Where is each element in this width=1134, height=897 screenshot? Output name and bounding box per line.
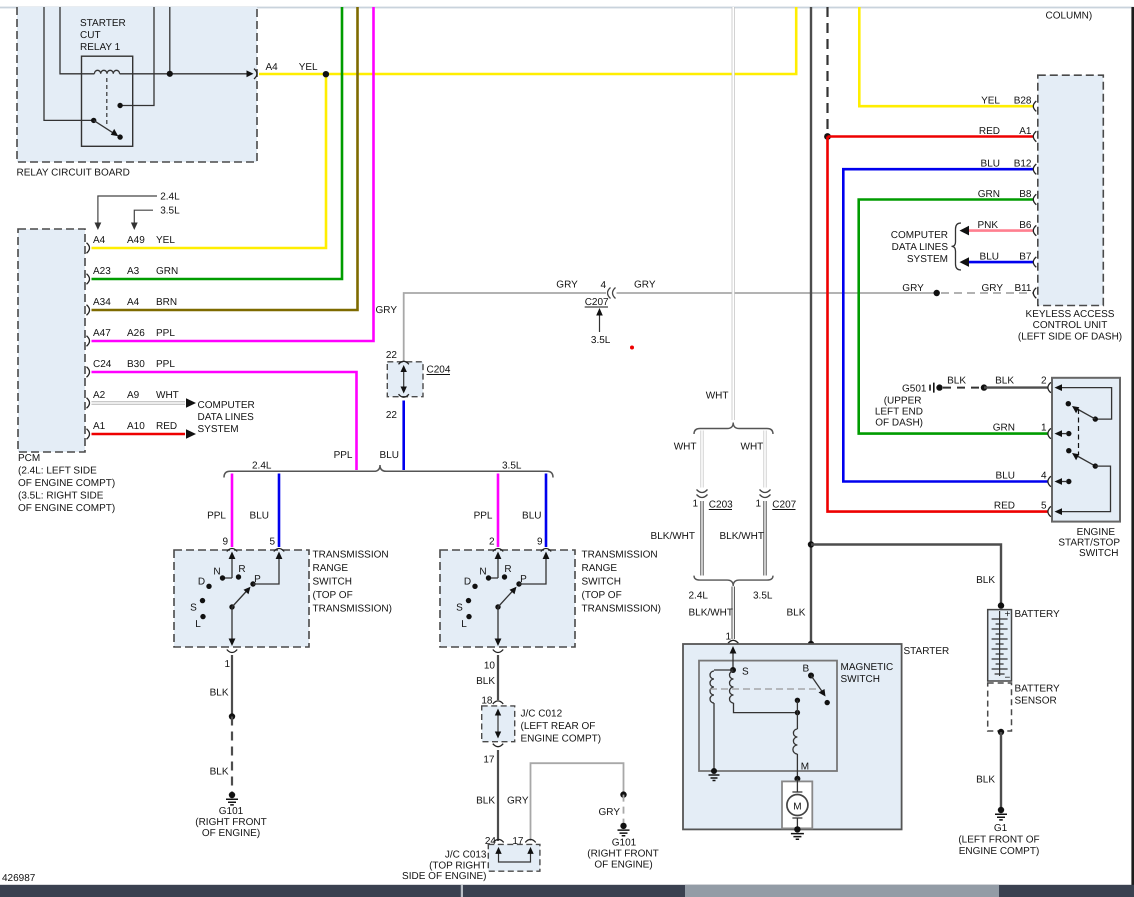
- TRS1 P to pin5 lead: [253, 554, 279, 584]
- PCM pin A1/A10 arc: [87, 429, 90, 439]
- svg-text:18: 18: [481, 696, 493, 707]
- TRS2 wiper arm to P: [498, 590, 514, 608]
- TRS1 exit arc pin1: [227, 650, 237, 653]
- connector C203 arcs: [697, 490, 708, 493]
- PCM box: [18, 229, 85, 452]
- svg-text:RELAY CIRCUIT BOARD: RELAY CIRCUIT BOARD: [17, 168, 130, 179]
- svg-text:M: M: [801, 762, 809, 773]
- svg-text:3.5L: 3.5L: [160, 206, 180, 217]
- motor lower terminal: [792, 818, 802, 829]
- svg-text:A2: A2: [93, 390, 106, 401]
- svg-text:2.4L: 2.4L: [160, 192, 180, 203]
- svg-text:DATA LINES: DATA LINES: [198, 412, 255, 423]
- C012 internal arrow: [497, 711, 499, 736]
- svg-text:C204: C204: [427, 365, 451, 376]
- connector C204 box: [387, 362, 423, 397]
- svg-text:SWITCH: SWITCH: [1079, 548, 1118, 559]
- svg-text:J/C C012: J/C C012: [521, 709, 563, 720]
- svg-text:BLK/WHT: BLK/WHT: [651, 531, 695, 542]
- TRS2 exit arc pin10: [493, 650, 503, 653]
- svg-text:BRN: BRN: [156, 297, 177, 308]
- wire GRN KACU B8 to start/stop pin1: [859, 200, 1048, 434]
- wire PPL feed 3.5L switch: [497, 474, 500, 548]
- motor winding coil: [793, 729, 798, 754]
- TRS2 pivot to pin10 lead: [497, 607, 499, 643]
- junction dot: [620, 791, 626, 797]
- svg-text:5: 5: [1041, 501, 1047, 512]
- PCM pin C24/B30 arc: [87, 367, 90, 377]
- wire into coil left: [60, 7, 94, 74]
- svg-text:GRY: GRY: [376, 305, 398, 316]
- svg-text:START/STOP: START/STOP: [1058, 538, 1120, 549]
- svg-text:SWITCH: SWITCH: [313, 577, 352, 588]
- motor winding lead: [796, 713, 798, 729]
- wire WHT PCM A2 to computer data lines: [92, 401, 186, 404]
- svg-text:PPL: PPL: [156, 328, 175, 339]
- svg-text:N: N: [213, 567, 220, 578]
- junction dot on coil output: [167, 71, 173, 77]
- junction dot GRY: [934, 290, 940, 296]
- computer data lines arrow (RED): [186, 429, 196, 439]
- svg-text:BLU: BLU: [250, 511, 269, 522]
- svg-text:10: 10: [484, 661, 496, 672]
- wire BLK/WHT from C207: [763, 501, 766, 576]
- connector C207 inline arcs: [608, 288, 611, 299]
- svg-text:A4: A4: [93, 235, 106, 246]
- TRS2 P to pin9 lead: [519, 554, 546, 584]
- KACU pin arc B11: [1033, 288, 1036, 298]
- svg-text:BLU: BLU: [996, 471, 1015, 482]
- svg-text:A34: A34: [93, 297, 111, 308]
- svg-text:YEL: YEL: [299, 62, 318, 73]
- svg-text:3.5L: 3.5L: [753, 591, 773, 602]
- svg-text:N: N: [479, 567, 486, 578]
- relay coil: [94, 70, 119, 74]
- KACU pin arc B6: [1033, 225, 1036, 235]
- svg-text:WHT: WHT: [674, 442, 697, 453]
- TRS2 contact dots: [486, 575, 491, 580]
- svg-text:OF ENGINE): OF ENGINE): [202, 828, 260, 839]
- wire WHT from top: [732, 7, 735, 420]
- ESS switch arm lower: [1066, 448, 1071, 453]
- TRS2 entry arc pin 2: [493, 549, 503, 552]
- svg-text:SYSTEM: SYSTEM: [198, 424, 239, 435]
- svg-text:(TOP OF: (TOP OF: [582, 590, 622, 601]
- svg-text:B28: B28: [1014, 96, 1032, 107]
- wire GRY C204 up and right to C207: [404, 293, 606, 361]
- svg-text:(LEFT REAR OF: (LEFT REAR OF: [521, 721, 596, 732]
- wire BLK from top to starter B: [810, 7, 812, 644]
- svg-text:S: S: [190, 603, 197, 614]
- starter box: [683, 644, 902, 829]
- junction connector J/C C013 box: [488, 844, 540, 871]
- svg-text:PPL: PPL: [334, 450, 353, 461]
- svg-text:WHT: WHT: [706, 391, 729, 402]
- junction dot YEL: [323, 71, 329, 77]
- PCM pin A2/A9 arc: [87, 398, 90, 408]
- svg-text:CONTROL UNIT: CONTROL UNIT: [1033, 320, 1108, 331]
- svg-text:COMPUTER: COMPUTER: [198, 400, 255, 411]
- svg-text:−: −: [1005, 673, 1011, 684]
- svg-text:WHT: WHT: [741, 442, 764, 453]
- svg-text:D: D: [198, 577, 205, 588]
- svg-text:A47: A47: [93, 328, 111, 339]
- svg-text:SENSOR: SENSOR: [1015, 696, 1057, 707]
- svg-text:RED: RED: [994, 501, 1015, 512]
- svg-text:KEYLESS ACCESS: KEYLESS ACCESS: [1026, 309, 1115, 320]
- svg-text:PPL: PPL: [474, 511, 493, 522]
- TRS1 entry arc pin 9: [227, 549, 237, 552]
- KACU pin arc B28: [1033, 101, 1036, 111]
- wire PNK to KACU B6: [968, 229, 1034, 232]
- svg-text:YEL: YEL: [981, 96, 1000, 107]
- svg-text:SWITCH: SWITCH: [841, 674, 880, 685]
- engine start/stop switch box: [1052, 378, 1120, 522]
- svg-text:SYSTEM: SYSTEM: [907, 254, 948, 265]
- svg-text:ENGINE COMPT): ENGINE COMPT): [521, 734, 602, 745]
- relay switch arm: [94, 120, 115, 133]
- svg-text:PPL: PPL: [207, 511, 226, 522]
- svg-text:BLK/WHT: BLK/WHT: [689, 608, 733, 619]
- svg-text:G1: G1: [994, 823, 1008, 834]
- junction dot at starter box edge: [808, 641, 814, 647]
- svg-text:BATTERY: BATTERY: [1015, 609, 1061, 620]
- PCM pin A34/A4 arc: [87, 305, 90, 315]
- svg-text:(UPPER: (UPPER: [884, 396, 922, 407]
- wire BRN PCM A34 to top: [92, 7, 358, 310]
- svg-text:(TOP RIGHT: (TOP RIGHT: [429, 861, 486, 872]
- TRS1 pivot to pin1 lead: [231, 607, 233, 643]
- arrow BLU: [960, 257, 970, 267]
- svg-text:DATA LINES: DATA LINES: [892, 242, 949, 253]
- svg-text:PPL: PPL: [156, 359, 175, 370]
- wire BLK/WHT merged to starter: [732, 587, 735, 640]
- svg-text:TRANSMISSION: TRANSMISSION: [582, 550, 658, 561]
- wire GRY dashed to ground: [623, 795, 625, 823]
- TRS1 entry arc pin 5: [274, 549, 284, 552]
- TRS1 internal pin9 lead: [223, 554, 233, 578]
- svg-text:OF ENGINE COMPT): OF ENGINE COMPT): [18, 503, 115, 514]
- KACU pin arc B7: [1033, 257, 1036, 267]
- ground G1: [998, 807, 1004, 813]
- svg-text:BLU: BLU: [522, 511, 541, 522]
- ESS lower lead to pin5: [1057, 466, 1111, 512]
- B switch arm: [811, 676, 824, 694]
- transmission range switch 2.4L box: [174, 550, 309, 647]
- arrow PNK: [960, 226, 970, 236]
- C013 entry arc pin17: [525, 839, 535, 842]
- svg-text:RED: RED: [156, 421, 177, 432]
- wire GRY C013 pin17 up and over to G101: [531, 763, 624, 841]
- wire BLK TRS1 pin1 to junction: [231, 655, 233, 717]
- battery sensor box: [988, 683, 1012, 731]
- connector C207 arcs: [760, 490, 771, 493]
- bottom scrollbar thumb: [685, 885, 999, 897]
- svg-text:2.4L: 2.4L: [252, 461, 272, 472]
- svg-text:B: B: [803, 664, 810, 675]
- svg-text:(LEFT SIDE OF DASH): (LEFT SIDE OF DASH): [1018, 332, 1122, 343]
- svg-text:BLK: BLK: [476, 676, 495, 687]
- svg-text:GRN: GRN: [993, 423, 1015, 434]
- relay circuit board box: [17, 7, 257, 162]
- svg-text:9: 9: [222, 537, 228, 548]
- junction dot sensor bottom: [998, 729, 1004, 735]
- relay pin A4 arc: [254, 69, 257, 79]
- transmission range switch 3.5L box: [440, 550, 575, 647]
- svg-text:B8: B8: [1019, 189, 1032, 200]
- svg-text:PNK: PNK: [977, 220, 998, 231]
- svg-text:STARTER: STARTER: [80, 18, 126, 29]
- svg-text:SWITCH: SWITCH: [582, 577, 621, 588]
- TRS1 wiper arm to P: [232, 590, 248, 608]
- C012 exit arc: [493, 744, 503, 747]
- ESS pin arc 1: [1048, 428, 1051, 438]
- wire GRN PCM A23 to top: [92, 7, 343, 279]
- svg-text:(LEFT FRONT OF: (LEFT FRONT OF: [958, 835, 1039, 846]
- KACU pin arc A1: [1033, 131, 1036, 141]
- svg-text:3.5L: 3.5L: [591, 335, 611, 346]
- wire BLU feed 3.5L switch: [545, 474, 548, 548]
- svg-text:J/C C013: J/C C013: [445, 850, 487, 861]
- ground G101 right: [620, 823, 626, 829]
- brace WHT split: [694, 423, 773, 435]
- internal ground: [711, 768, 717, 774]
- svg-text:L: L: [195, 619, 201, 630]
- magnetic switch box: [699, 661, 837, 771]
- wire BLK/WHT from C203: [700, 501, 703, 576]
- ESS pin2 internal lead: [1057, 388, 1112, 420]
- wire BLK sensor to G1: [1000, 732, 1002, 807]
- svg-text:OF ENGINE): OF ENGINE): [594, 860, 652, 871]
- svg-text:BLK: BLK: [210, 767, 229, 778]
- 3.5L pin pointer: [134, 210, 153, 226]
- svg-text:BLK: BLK: [947, 376, 966, 387]
- svg-text:BLU: BLU: [980, 252, 999, 263]
- wire from top to NO contact: [120, 7, 154, 106]
- PCM pin A23/A3 arc: [87, 274, 90, 284]
- svg-text:RED: RED: [979, 126, 1000, 137]
- svg-text:1: 1: [224, 659, 230, 670]
- relay K1 box: [82, 56, 133, 146]
- svg-text:B6: B6: [1019, 220, 1032, 231]
- svg-text:2.4L: 2.4L: [689, 591, 709, 602]
- svg-text:(RIGHT FRONT: (RIGHT FRONT: [587, 849, 658, 860]
- svg-text:(2.4L: LEFT SIDE: (2.4L: LEFT SIDE: [18, 466, 97, 477]
- svg-text:BLU: BLU: [981, 159, 1000, 170]
- svg-text:A1: A1: [93, 421, 106, 432]
- svg-text:S: S: [456, 603, 463, 614]
- PCM pin A47/A26 arc: [87, 336, 90, 346]
- wire PPL feed 2.4L switch: [231, 474, 234, 548]
- C207 pointer arrow: [599, 312, 601, 332]
- C012 entry arc: [493, 701, 503, 704]
- wire BLU feed 2.4L switch: [278, 474, 281, 548]
- wire BLK dashed G501 to junction: [943, 387, 981, 389]
- svg-text:MAGNETIC: MAGNETIC: [841, 662, 894, 673]
- svg-text:3.5L: 3.5L: [502, 461, 522, 472]
- svg-text:PCM: PCM: [18, 453, 40, 464]
- wire BLU C204 down to brace: [402, 401, 405, 471]
- svg-text:4: 4: [1041, 471, 1047, 482]
- wire into switch common (left): [44, 7, 94, 120]
- lead to motor: [796, 754, 798, 779]
- wire BLK tee to battery: [811, 545, 1001, 606]
- PCM pin A4/A49 arc: [87, 243, 90, 253]
- svg-text:A10: A10: [127, 421, 145, 432]
- svg-text:1: 1: [755, 499, 761, 510]
- svg-text:B11: B11: [1014, 283, 1031, 294]
- svg-text:BLK: BLK: [476, 796, 495, 807]
- junction dot battery top: [998, 602, 1004, 608]
- relay output arrow into pin: [247, 70, 254, 77]
- svg-text:G101: G101: [612, 838, 637, 849]
- wire WHT branch C207: [763, 431, 766, 488]
- svg-text:A1: A1: [1019, 126, 1032, 137]
- ESS pin arc 5: [1048, 506, 1051, 516]
- wire BLK to start/stop pin2: [984, 386, 1048, 388]
- TRS2 entry arc pin 9: [541, 549, 551, 552]
- svg-text:17: 17: [483, 755, 495, 766]
- svg-text:YEL: YEL: [156, 235, 175, 246]
- svg-text:RANGE: RANGE: [582, 563, 618, 574]
- B terminal dot: [808, 673, 814, 679]
- svg-text:GRY: GRY: [556, 280, 578, 291]
- svg-text:TRANSMISSION: TRANSMISSION: [313, 550, 389, 561]
- svg-text:GRY: GRY: [982, 283, 1004, 294]
- starter pin1 internal arrow: [732, 650, 734, 670]
- hold-in coil: [730, 671, 734, 703]
- svg-text:SIDE OF ENGINE): SIDE OF ENGINE): [402, 871, 486, 882]
- svg-text:GRY: GRY: [634, 280, 656, 291]
- svg-text:2: 2: [1041, 376, 1047, 387]
- svg-text:LEFT END: LEFT END: [875, 407, 923, 418]
- svg-text:OF DASH): OF DASH): [875, 418, 923, 429]
- svg-text:TRANSMISSION): TRANSMISSION): [313, 604, 392, 615]
- svg-text:BLU: BLU: [380, 450, 399, 461]
- keyless access control unit box: [1038, 75, 1104, 305]
- brace WHT merge: [694, 576, 773, 587]
- svg-text:GRN: GRN: [978, 189, 1000, 200]
- relay switch pivot dot: [91, 118, 96, 123]
- hold-in coil to contact: [734, 703, 795, 713]
- 2.4L pin pointer: [98, 196, 157, 226]
- svg-text:B12: B12: [1014, 159, 1032, 170]
- bottom scrollbar track: [0, 885, 1134, 897]
- TRS1 contact dots: [220, 575, 225, 580]
- svg-text:A49: A49: [127, 235, 145, 246]
- svg-text:STARTER: STARTER: [904, 646, 950, 657]
- junction dot: [229, 713, 235, 719]
- wire RED junction to KACU A1: [828, 135, 1034, 138]
- svg-text:22: 22: [386, 350, 398, 361]
- svg-text:BATTERY: BATTERY: [1015, 684, 1061, 695]
- battery box: [988, 610, 1012, 681]
- svg-text:(RIGHT FRONT: (RIGHT FRONT: [195, 817, 266, 828]
- wire GRY dashed to KACU B11: [941, 292, 1034, 294]
- svg-text:C207: C207: [585, 297, 609, 308]
- wire BLK TRS2 pin10 to J/C C012: [497, 655, 499, 700]
- coil output wire to pin A4: [120, 73, 251, 75]
- svg-text:(TOP OF: (TOP OF: [313, 590, 353, 601]
- wire GRY C207 to junction: [617, 292, 937, 294]
- TRS1 wiper pivot dot: [229, 604, 234, 609]
- NO contact dot: [117, 103, 122, 108]
- bottom scrollbar separator: [461, 885, 463, 897]
- svg-text:WHT: WHT: [156, 390, 179, 401]
- motor box: [782, 781, 812, 828]
- right viewport border: [1131, 7, 1134, 885]
- svg-text:GRY: GRY: [507, 796, 529, 807]
- brace 2.4L/3.5L split: [224, 465, 553, 478]
- svg-text:+: +: [1005, 609, 1011, 620]
- junction dot: [981, 384, 987, 390]
- junction dot at battery tee: [808, 541, 814, 547]
- wire BLU KACU B12 to start/stop pin4: [843, 169, 1047, 481]
- C013 entry arc pin24: [493, 839, 503, 842]
- wire YEL branch down to PCM A4: [92, 74, 327, 248]
- svg-text:C24: C24: [93, 359, 112, 370]
- svg-text:OF ENGINE COMPT): OF ENGINE COMPT): [18, 478, 115, 489]
- ESS switch arm upper: [1076, 408, 1096, 419]
- svg-text:B7: B7: [1019, 252, 1032, 263]
- C204 entry arc top: [399, 361, 409, 364]
- computer data lines arrow (WHT): [186, 398, 196, 408]
- svg-text:GRY: GRY: [902, 283, 924, 294]
- junction dot motor top: [794, 776, 800, 782]
- svg-text:ENGINE: ENGINE: [1077, 527, 1116, 538]
- TRS2 internal pin2 lead: [489, 554, 499, 578]
- wire RED PCM A1 to computer data lines: [92, 433, 186, 436]
- svg-text:M: M: [793, 802, 801, 813]
- svg-text:1: 1: [1041, 423, 1047, 434]
- svg-text:1: 1: [692, 499, 698, 510]
- svg-text:D: D: [464, 577, 471, 588]
- motor upper terminal: [792, 779, 802, 792]
- svg-text:C207: C207: [772, 500, 796, 511]
- ground G101 left: [229, 792, 235, 798]
- svg-text:A3: A3: [127, 266, 140, 277]
- svg-text:A23: A23: [93, 266, 111, 277]
- svg-text:BLK: BLK: [976, 575, 995, 586]
- ESS pin arc 2: [1048, 382, 1051, 392]
- wire PPL PCM A47 to top: [92, 7, 374, 341]
- svg-text:A4: A4: [127, 297, 140, 308]
- svg-text:COMPUTER: COMPUTER: [891, 230, 948, 241]
- ESS ganged link dashed: [1078, 409, 1080, 455]
- KACU pin arc B12: [1033, 164, 1036, 174]
- wire WHT branch C203: [700, 431, 703, 488]
- svg-text:4: 4: [600, 280, 606, 291]
- S terminal dot: [730, 667, 736, 673]
- svg-text:426987: 426987: [2, 873, 36, 884]
- ESS pin4 contact: [1066, 479, 1071, 484]
- pull-in coil: [710, 671, 714, 703]
- svg-text:C203: C203: [709, 500, 733, 511]
- svg-text:B30: B30: [127, 359, 145, 370]
- svg-text:GRY: GRY: [599, 807, 621, 818]
- starter entry arc: [728, 640, 738, 643]
- motor ground: [794, 826, 800, 832]
- svg-text:A9: A9: [127, 390, 140, 401]
- relay NC contact dot: [117, 134, 122, 139]
- svg-text:9: 9: [537, 537, 543, 548]
- fixed contact dots: [795, 698, 800, 703]
- brace computer data lines: [952, 223, 962, 270]
- svg-text:5: 5: [269, 537, 275, 548]
- wire BLK dashed from top to red junction: [826, 7, 828, 133]
- open contact dot: [825, 700, 830, 705]
- TRS2 wiper pivot dot: [495, 604, 500, 609]
